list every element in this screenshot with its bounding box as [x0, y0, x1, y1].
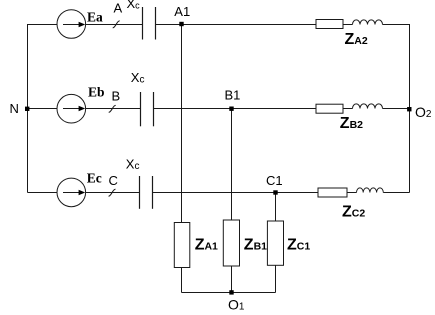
svg-text:B1: B1: [225, 87, 241, 102]
wire source Ea to capacitor: [86, 24, 143, 26]
wire source Eb to capacitor: [86, 108, 141, 110]
svg-text:Eb: Eb: [88, 85, 105, 100]
breaker tick A: [113, 21, 120, 28]
node C1 junction: [273, 190, 277, 194]
wire ZC1 to bottom bus: [275, 265, 277, 292]
source Ec: [57, 178, 86, 207]
svg-text:A: A: [114, 1, 123, 16]
source Ea: [57, 10, 86, 39]
svg-text:B: B: [112, 88, 121, 103]
svg-text:A1: A1: [174, 4, 190, 19]
source Eb: [57, 94, 86, 123]
wire source Ec to capacitor: [86, 192, 140, 194]
wire right bus O2 vertical: [409, 24, 411, 193]
wire ZB1 to node O1: [231, 266, 233, 293]
wire capacitor to node B1 and on to ZB2: [154, 108, 317, 110]
inductor part of ZA2: [353, 20, 383, 25]
wire ZC2 to right bus: [383, 192, 409, 194]
svg-text:C1: C1: [266, 173, 283, 188]
wire bottom bus to O1: [182, 292, 276, 294]
wire capacitor to node C1 and on to ZC2: [153, 192, 319, 194]
node N junction: [25, 107, 29, 111]
wire dropper from A1 down to ZA1: [181, 25, 183, 223]
wire phase A: N bus to source Ea: [28, 24, 58, 26]
wire ZA1 to bottom bus: [181, 268, 183, 293]
inductor part of ZC2: [357, 188, 384, 193]
resistor part of ZC2: [318, 188, 347, 197]
wire ZC2 resistor to inductor: [347, 192, 357, 194]
breaker tick B: [109, 105, 116, 112]
resistor ZA1: [174, 223, 190, 268]
resistor ZB1: [223, 220, 239, 266]
capacitor Xc phase C: [140, 176, 153, 209]
resistor ZC1: [267, 221, 283, 265]
wire ZB2 resistor to inductor: [343, 108, 353, 110]
wire capacitor to node A1 and on to ZA2: [156, 24, 317, 26]
inductor part of ZB2: [353, 104, 383, 109]
wire phase B: N to source Eb: [28, 108, 58, 110]
node O1 junction: [229, 290, 233, 294]
wire dropper from C1 down to ZC1: [275, 193, 277, 222]
resistor part of ZB2: [316, 104, 343, 113]
svg-text:Ec: Ec: [87, 171, 102, 186]
svg-text:Ea: Ea: [87, 10, 103, 25]
node A1 junction: [179, 22, 183, 26]
node B1 junction: [229, 107, 233, 111]
wire ZA2 resistor to inductor: [343, 24, 353, 26]
capacitor Xc phase B: [141, 92, 154, 126]
node O2 junction: [407, 107, 411, 111]
wire left bus N vertical: [27, 24, 29, 193]
wire ZA2 to right bus: [383, 24, 410, 26]
svg-text:Xc: Xc: [127, 0, 141, 11]
svg-text:N: N: [10, 101, 19, 116]
wire phase C: N to source Ec: [28, 192, 58, 194]
capacitor Xc phase A: [143, 7, 156, 40]
wire dropper from B1 down to ZB1: [231, 109, 233, 221]
svg-text:C: C: [109, 173, 118, 188]
breaker tick C: [109, 189, 116, 196]
resistor part of ZA2: [316, 20, 343, 29]
wire ZB2 to right bus node O2: [383, 108, 410, 110]
